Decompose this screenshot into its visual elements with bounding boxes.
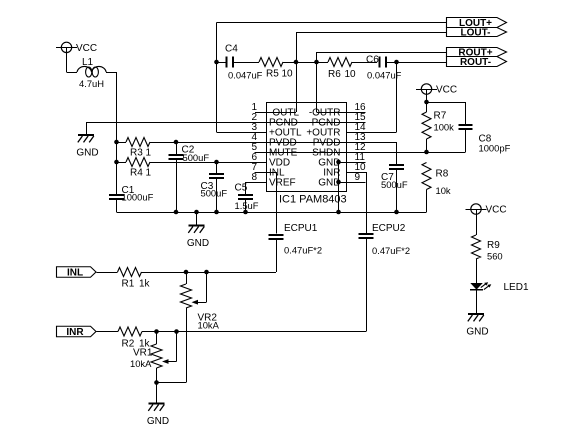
svg-text:R6: R6 <box>328 69 341 80</box>
svg-text:R5: R5 <box>266 69 279 80</box>
svg-text:4.7uH: 4.7uH <box>79 78 104 89</box>
svg-text:R7: R7 <box>434 111 447 122</box>
svg-text:R9: R9 <box>487 240 500 251</box>
svg-text:8: 8 <box>251 172 257 183</box>
svg-text:10: 10 <box>282 69 294 80</box>
svg-text:LED1: LED1 <box>504 282 529 293</box>
svg-text:500uF: 500uF <box>201 188 228 199</box>
svg-text:1000pF: 1000pF <box>479 143 511 154</box>
svg-text:VCC: VCC <box>76 43 97 54</box>
svg-text:1: 1 <box>146 148 152 159</box>
svg-text:0.047uF: 0.047uF <box>367 70 402 81</box>
svg-text:INR: INR <box>66 327 84 338</box>
svg-text:ECPU2: ECPU2 <box>372 223 406 234</box>
svg-text:10kA: 10kA <box>130 358 152 369</box>
svg-text:R8: R8 <box>436 169 449 180</box>
svg-text:GND: GND <box>318 178 340 189</box>
svg-text:0.47uF*2: 0.47uF*2 <box>372 245 410 256</box>
svg-text:L1: L1 <box>82 57 94 68</box>
svg-text:C4: C4 <box>225 44 238 55</box>
svg-text:1k: 1k <box>139 279 151 290</box>
svg-text:LOUT-: LOUT- <box>461 28 491 39</box>
svg-text:VREF: VREF <box>269 178 296 189</box>
svg-text:IC1 PAM8403: IC1 PAM8403 <box>279 194 347 206</box>
svg-text:9: 9 <box>355 172 361 183</box>
svg-text:R3: R3 <box>130 148 143 159</box>
svg-text:GND: GND <box>147 416 169 427</box>
svg-text:GND: GND <box>187 238 209 249</box>
svg-text:R1: R1 <box>122 279 135 290</box>
svg-text:R4: R4 <box>130 168 143 179</box>
svg-text:GND: GND <box>466 327 488 338</box>
svg-text:10kA: 10kA <box>198 320 220 331</box>
svg-text:ECPU1: ECPU1 <box>284 223 318 234</box>
svg-text:0.047uF: 0.047uF <box>228 70 263 81</box>
svg-text:1: 1 <box>146 168 152 179</box>
svg-text:560: 560 <box>487 251 503 262</box>
svg-text:INL: INL <box>67 268 83 279</box>
svg-text:10k: 10k <box>436 185 451 196</box>
svg-text:VCC: VCC <box>436 85 457 96</box>
svg-text:GND: GND <box>76 148 98 159</box>
svg-text:10: 10 <box>345 69 357 80</box>
svg-text:500uF: 500uF <box>183 152 210 163</box>
svg-text:VCC: VCC <box>486 205 507 216</box>
svg-text:C6: C6 <box>366 55 379 66</box>
svg-text:VR1: VR1 <box>133 348 153 359</box>
svg-text:500uF: 500uF <box>381 179 408 190</box>
svg-text:1.5uF: 1.5uF <box>235 200 259 211</box>
svg-text:100k: 100k <box>434 122 455 133</box>
svg-text:0.47uF*2: 0.47uF*2 <box>284 245 322 256</box>
svg-text:C5: C5 <box>235 183 248 194</box>
svg-text:ROUT-: ROUT- <box>460 57 491 68</box>
svg-text:1000uF: 1000uF <box>122 192 154 203</box>
